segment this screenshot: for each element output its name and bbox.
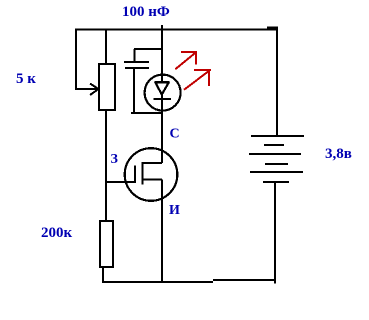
LED VD1 triangle left side: [155, 82, 162, 94]
svg-text:И: И: [169, 203, 180, 218]
red light emission arrow 1 shaft: [175, 52, 196, 69]
wire source down to bottom rail: [161, 179, 163, 283]
resistor R2 200к body: [100, 221, 113, 267]
wire battery positive lead up to top rail: [276, 27, 278, 137]
LED VD1 triangle right side: [162, 82, 169, 94]
capacitor C1 bottom plate: [125, 67, 149, 69]
wire gate lead from left rail into MOSFET: [105, 181, 136, 183]
wire bottom rail right part: [213, 279, 276, 281]
red light emission arrow 2 shaft: [184, 70, 210, 90]
wire resistor bottom lead: [102, 267, 104, 282]
wire LED cathode down to MOSFET drain entry: [161, 94, 163, 163]
wire capacitor top bracket: [134, 48, 162, 50]
svg-text:3,8в: 3,8в: [325, 146, 352, 162]
battery GB1 plate long 3: [249, 153, 301, 155]
potentiometer wiper arrowhead: [90, 84, 99, 96]
wire battery negative lead: [274, 182, 276, 284]
MOSFET VT1 channel bar: [141, 162, 143, 185]
LED VD1 cathode bar: [153, 98, 171, 100]
svg-text:С: С: [170, 126, 180, 141]
MOSFET VT1 circle: [125, 148, 178, 201]
wire top-right corner blob: [267, 26, 278, 29]
wire gate node down to resistor top: [105, 182, 107, 221]
wire wiper lead of potentiometer: [75, 88, 97, 90]
wire capacitor top lead: [134, 49, 136, 62]
wire main vertical from top rail to LED anode: [161, 25, 163, 82]
potentiometer R1 5 к body: [99, 64, 115, 110]
wire bottom rail left part: [102, 281, 213, 283]
wire capacitor bottom bracket to node below LED: [131, 112, 162, 114]
red light emission arrow 1 head: [181, 52, 197, 64]
svg-text:200к: 200к: [41, 225, 73, 241]
wire potentiometer top lead: [105, 29, 107, 64]
LED VD1 circle: [145, 75, 181, 111]
battery GB1 plate long 1 (positive top): [251, 135, 304, 137]
MOSFET VT1 gate bar: [134, 166, 136, 183]
wire potentiometer bottom lead down to gate node: [105, 110, 107, 182]
capacitor C1 top plate: [124, 61, 149, 63]
wire top horizontal rail: [76, 29, 278, 31]
svg-text:100 нФ: 100 нФ: [122, 4, 170, 20]
battery GB1 plate short 2: [264, 144, 284, 146]
battery GB1 plate long 5: [250, 171, 303, 173]
MOSFET VT1 drain lead horizontal: [143, 162, 163, 164]
svg-text:5 к: 5 к: [16, 71, 36, 87]
wire left vertical from rail down to wiper: [75, 29, 77, 90]
MOSFET VT1 source lead horizontal: [143, 178, 162, 180]
red light emission arrow 2 head: [194, 70, 211, 86]
LED VD1 triangle anode bar: [155, 81, 170, 83]
wire capacitor bottom lead: [133, 68, 135, 113]
battery GB1 plate short 6: [263, 181, 289, 183]
svg-text:З: З: [111, 152, 118, 167]
battery GB1 plate short 4: [265, 163, 288, 165]
